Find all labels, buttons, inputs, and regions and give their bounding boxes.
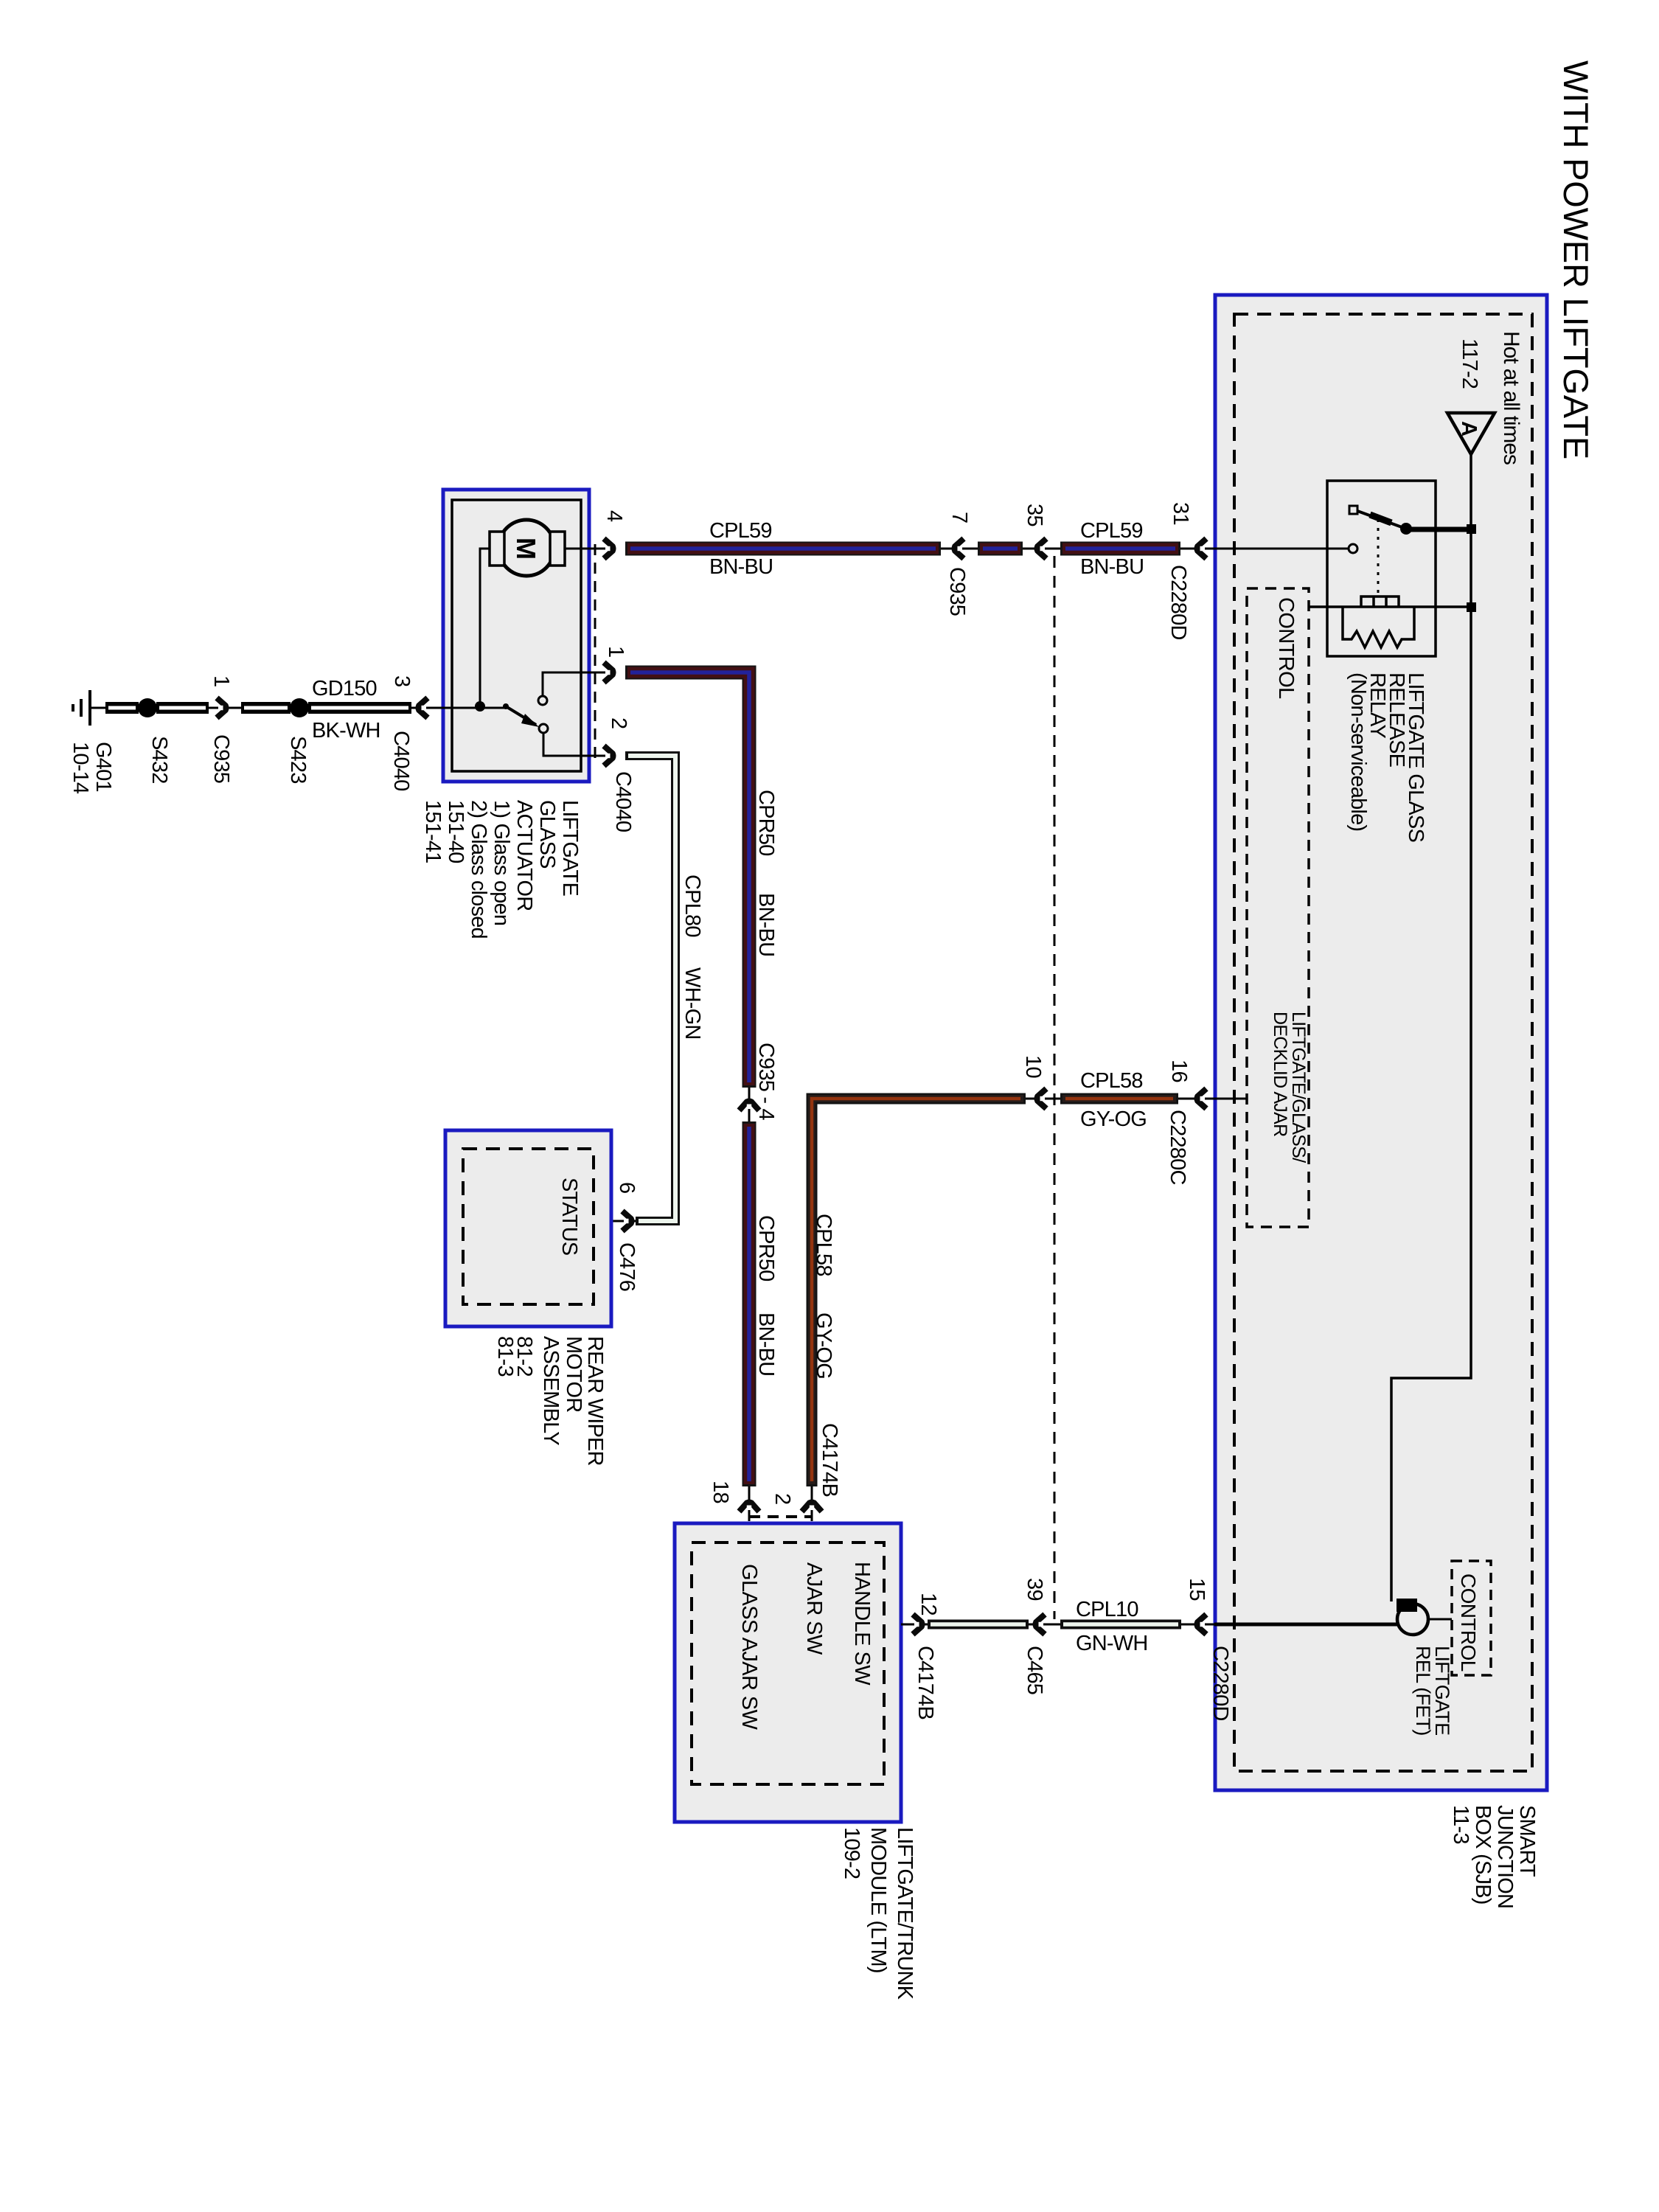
svg-text:C4040: C4040 [611, 771, 635, 832]
smart junction box SJB outline [1215, 295, 1547, 1790]
control box lower dashed [1452, 1561, 1491, 1675]
svg-text:CPL59: CPL59 [709, 519, 772, 543]
svg-text:Hot at all times: Hot at all times [1499, 331, 1523, 465]
wire CPL59 BN-BU segment C [1060, 542, 1180, 556]
connector C935 pin4 line [748, 1088, 751, 1121]
svg-text:CPL10: CPL10 [1076, 1598, 1138, 1621]
wire CPL10 inside SJB [1214, 1623, 1398, 1627]
connector C4174B pin2 arrow [802, 1503, 822, 1512]
connector C935 pin4 arrow [740, 1102, 759, 1111]
actuator switch junction dot [475, 701, 485, 712]
svg-text:C935: C935 [209, 734, 233, 783]
splice S432 [138, 698, 157, 717]
svg-text:C2280C: C2280C [1166, 1110, 1189, 1185]
svg-text:1: 1 [209, 675, 233, 687]
wire relay contact to pin 31 [1216, 548, 1349, 550]
svg-text:12: 12 [917, 1593, 940, 1615]
actuator switch blade [506, 706, 536, 725]
wire contact 2 to pin 1 [543, 672, 606, 696]
svg-text:HANDLE SW: HANDLE SW [850, 1562, 874, 1686]
connector C465 pin35 arrow [1037, 539, 1047, 559]
relay parallel resistor [1343, 607, 1414, 647]
svg-text:WITH POWER LIFTGATE: WITH POWER LIFTGATE [1557, 60, 1596, 459]
splice S423 [290, 698, 309, 717]
wire CPL59 BN-BU segment A [625, 542, 941, 556]
connector C4040 pin3 line [411, 707, 443, 709]
wire CPL10 GN-WH segment B [1060, 1620, 1181, 1630]
svg-text:CPR50: CPR50 [754, 790, 778, 856]
connector C935 pin7 line [941, 548, 978, 550]
fuse A triangle [1447, 413, 1495, 454]
actuator switch contact 1 [539, 724, 548, 733]
motor M circle [498, 520, 554, 576]
connector C2280D pin15 line [1181, 1624, 1214, 1626]
svg-text:G40110-14: G40110-14 [69, 742, 115, 794]
actuator blade arrowhead [521, 714, 539, 727]
liftgate trunk module box [675, 1523, 901, 1822]
wire CPR50 BN-BU lower [742, 1121, 757, 1486]
connector C2280D pin31 arrow [1197, 539, 1207, 559]
svg-text:WH-GN: WH-GN [681, 967, 704, 1039]
svg-text:REAR WIPERMOTORASSEMBLY81-281-: REAR WIPERMOTORASSEMBLY81-281-3 [493, 1336, 607, 1466]
svg-text:35: 35 [1023, 504, 1046, 526]
relay box liftgate glass release relay [1327, 481, 1436, 656]
connector C465 pin35 line [1023, 548, 1060, 550]
svg-text:C935 - 4: C935 - 4 [754, 1043, 778, 1120]
wire ground lead [91, 707, 109, 709]
relay common terminal square [1467, 524, 1476, 534]
svg-text:BK-WH: BK-WH [312, 719, 380, 742]
svg-text:CONTROL: CONTROL [1274, 597, 1298, 699]
connector C4174B pin12 line [901, 1624, 928, 1626]
svg-text:39: 39 [1023, 1578, 1046, 1601]
control box upper dashed [1247, 588, 1309, 1227]
wire CPL59 BN-BU segment B [978, 542, 1023, 556]
connector C476 pin6 line [594, 1220, 636, 1222]
relay contact 2 [1349, 544, 1357, 553]
liftgate rel FET circle [1397, 1604, 1428, 1635]
svg-text:C2280D: C2280D [1166, 565, 1190, 640]
relay coil terminal square [1467, 602, 1476, 612]
wire CPL10 GN-WH segment A [928, 1620, 1029, 1630]
connector C465 pin39 line [1029, 1624, 1060, 1626]
svg-text:BN-BU: BN-BU [709, 555, 773, 579]
connector C465 pin39 arrow [1036, 1615, 1046, 1635]
svg-text:BN-BU: BN-BU [754, 1312, 778, 1376]
svg-text:C476: C476 [615, 1242, 639, 1291]
connector C4174B dashed line [749, 1515, 812, 1518]
svg-text:AJAR SW: AJAR SW [802, 1562, 826, 1655]
connector C935 pin1 line [206, 707, 241, 709]
LTM inner dashed box [692, 1543, 884, 1784]
svg-text:15: 15 [1185, 1578, 1208, 1601]
actuator switch contact 2 [538, 696, 547, 705]
wire FET to control box 2 [1428, 1618, 1452, 1621]
svg-text:4: 4 [602, 510, 626, 522]
connector C2280D pin31 line [1180, 548, 1216, 550]
svg-text:LIFTGATE/TRUNKMODULE (LTM)109-: LIFTGATE/TRUNKMODULE (LTM)109-2 [840, 1827, 917, 2000]
wire pin 16 stub to control box [1207, 1098, 1247, 1100]
wire CPL80 WH-GN path [625, 756, 675, 1221]
svg-text:16: 16 [1167, 1060, 1191, 1082]
connector C935 pin7 arrow [955, 539, 964, 559]
connector C465 pin10 arrow [1037, 1089, 1047, 1109]
svg-text:GY-OG: GY-OG [1080, 1107, 1147, 1131]
wire motor right brush to pin 4 [565, 548, 606, 550]
svg-text:10: 10 [1021, 1055, 1045, 1078]
wire BK-WH ground segment 3 [241, 702, 291, 714]
wire CPL58 GY-OG upper path [812, 1099, 1026, 1486]
svg-text:2: 2 [771, 1493, 794, 1505]
connector C2280C pin16 line [1178, 1098, 1207, 1100]
wire contact 1 to pin 2 [543, 733, 606, 756]
relay coil base lead [1309, 605, 1467, 608]
svg-text:BN-BU: BN-BU [1080, 555, 1144, 579]
relay contact 1 [1349, 506, 1357, 514]
wire motor left brush to switch common [480, 549, 490, 706]
connector C4040 dashed line [594, 544, 597, 758]
wire BK-WH ground segment 2 [156, 702, 209, 714]
ground G401 symbol [73, 690, 90, 726]
wire battery feed from fuse to liftgate rel [1391, 454, 1471, 1601]
svg-text:1: 1 [604, 646, 627, 658]
svg-text:18: 18 [709, 1481, 732, 1503]
svg-text:LIFTGATEGLASSACTUATOR1) Glass: LIFTGATEGLASSACTUATOR1) Glass open2) Gla… [421, 800, 582, 939]
relay common thick lead [1406, 527, 1469, 532]
svg-text:C935: C935 [945, 567, 969, 616]
relay blade pivot dot [1400, 523, 1412, 535]
svg-text:CPR50: CPR50 [754, 1215, 778, 1281]
connector C4174B pin2 line [811, 1486, 813, 1521]
wire BK-WH ground segment 1 [105, 702, 139, 714]
SJB inner dashed boundary [1234, 314, 1532, 1771]
relay coil windings [1361, 597, 1399, 607]
svg-text:BN-BU: BN-BU [754, 893, 778, 956]
svg-text:3: 3 [390, 675, 414, 687]
wire GD150 BK-WH segment [308, 702, 411, 714]
svg-text:M: M [511, 538, 541, 560]
svg-text:CPL58: CPL58 [812, 1214, 835, 1276]
svg-text:C465: C465 [1023, 1646, 1046, 1694]
connector C465 pin10 line [1026, 1098, 1060, 1100]
svg-text:GY-OG: GY-OG [812, 1312, 835, 1379]
svg-text:6: 6 [615, 1182, 639, 1194]
connector C4040 pin4 arrow [604, 539, 613, 559]
svg-text:C2280D: C2280D [1208, 1646, 1232, 1721]
svg-text:LIFTGATEREL (FET): LIFTGATEREL (FET) [1412, 1646, 1453, 1736]
connector C4040 pin1 arrow [604, 663, 613, 683]
svg-text:SMARTJUNCTIONBOX (SJB)11-3: SMARTJUNCTIONBOX (SJB)11-3 [1449, 1805, 1539, 1908]
connector C476 pin6 arrow [622, 1211, 632, 1231]
connector C4040 pin2 arrow [604, 746, 613, 766]
motor brush left [490, 532, 504, 566]
svg-text:GLASS AJAR SW: GLASS AJAR SW [737, 1564, 761, 1730]
svg-text:STATUS: STATUS [557, 1178, 581, 1256]
connector C2280D pin15 arrow [1197, 1615, 1207, 1635]
connector C4040 pin3 arrow [419, 698, 428, 718]
rear wiper motor assembly box [445, 1130, 611, 1326]
svg-text:GD150: GD150 [312, 677, 377, 700]
connector C935 pin1 arrow [217, 698, 226, 718]
actuator switch pivot dot [503, 703, 509, 709]
motor brush right [550, 532, 565, 566]
svg-text:CPL80: CPL80 [681, 874, 704, 937]
liftgate rel FET terminal square [1397, 1599, 1417, 1612]
svg-text:A: A [1457, 421, 1481, 437]
svg-text:S423: S423 [286, 736, 310, 784]
svg-text:C4174B: C4174B [914, 1646, 937, 1719]
liftgate glass actuator box [443, 490, 589, 782]
svg-text:117-2: 117-2 [1458, 338, 1481, 389]
connector C465 dashed line [1054, 556, 1056, 1619]
actuator inner rect [452, 500, 581, 771]
connector C4174B pin18 line [748, 1486, 751, 1521]
relay actuation dotted link [1377, 519, 1380, 597]
svg-text:C4040: C4040 [389, 731, 413, 790]
wire switch common to pin 3 [434, 707, 506, 709]
svg-text:GN-WH: GN-WH [1076, 1632, 1147, 1655]
svg-text:CPL58: CPL58 [1080, 1069, 1143, 1093]
svg-text:CONTROL: CONTROL [1457, 1573, 1480, 1672]
svg-text:7: 7 [947, 512, 971, 524]
svg-text:C4174B: C4174B [818, 1423, 841, 1497]
connector C4174B pin12 arrow [913, 1615, 922, 1635]
rear wiper inner dashed box [463, 1149, 594, 1304]
svg-text:2: 2 [607, 717, 630, 729]
svg-text:31: 31 [1169, 502, 1192, 525]
relay blade wedge [1370, 515, 1391, 523]
connector C2280C pin16 arrow [1197, 1089, 1207, 1109]
connector C4174B pin18 arrow [740, 1503, 759, 1512]
svg-text:CPL59: CPL59 [1080, 519, 1143, 543]
wire CPL58 GY-OG segment B [1060, 1093, 1178, 1105]
relay blade [1357, 511, 1404, 528]
wire CPR50 BN-BU upper [625, 672, 749, 1088]
svg-text:S432: S432 [147, 736, 171, 784]
